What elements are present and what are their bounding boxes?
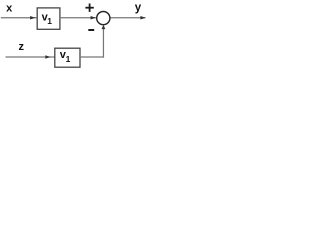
arrowhead into summer bottom [102, 25, 106, 29]
plus sign [85, 7, 93, 9]
svg-text:y: y [135, 2, 142, 14]
arrowhead into block V1 bottom [45, 55, 50, 59]
summing junction circle [97, 12, 110, 25]
background [0, 0, 167, 70]
svg-text:1: 1 [66, 54, 71, 64]
svg-text:1: 1 [47, 16, 52, 26]
block V1 bottom [55, 48, 80, 67]
wire bottom block to corner [80, 56, 104, 58]
wire x input [1, 17, 37, 19]
block V1 top [37, 8, 60, 29]
wire z input [6, 56, 55, 58]
svg-text:z: z [19, 41, 25, 53]
wire block to summer [60, 17, 96, 19]
arrowhead into block V1 top [30, 16, 35, 20]
wire corner up to summer [102, 26, 104, 58]
minus sign [88, 29, 94, 31]
arrowhead into summer left [91, 16, 96, 20]
svg-text:x: x [6, 2, 13, 14]
wire summer to output y [111, 17, 146, 19]
arrowhead output [140, 16, 145, 20]
